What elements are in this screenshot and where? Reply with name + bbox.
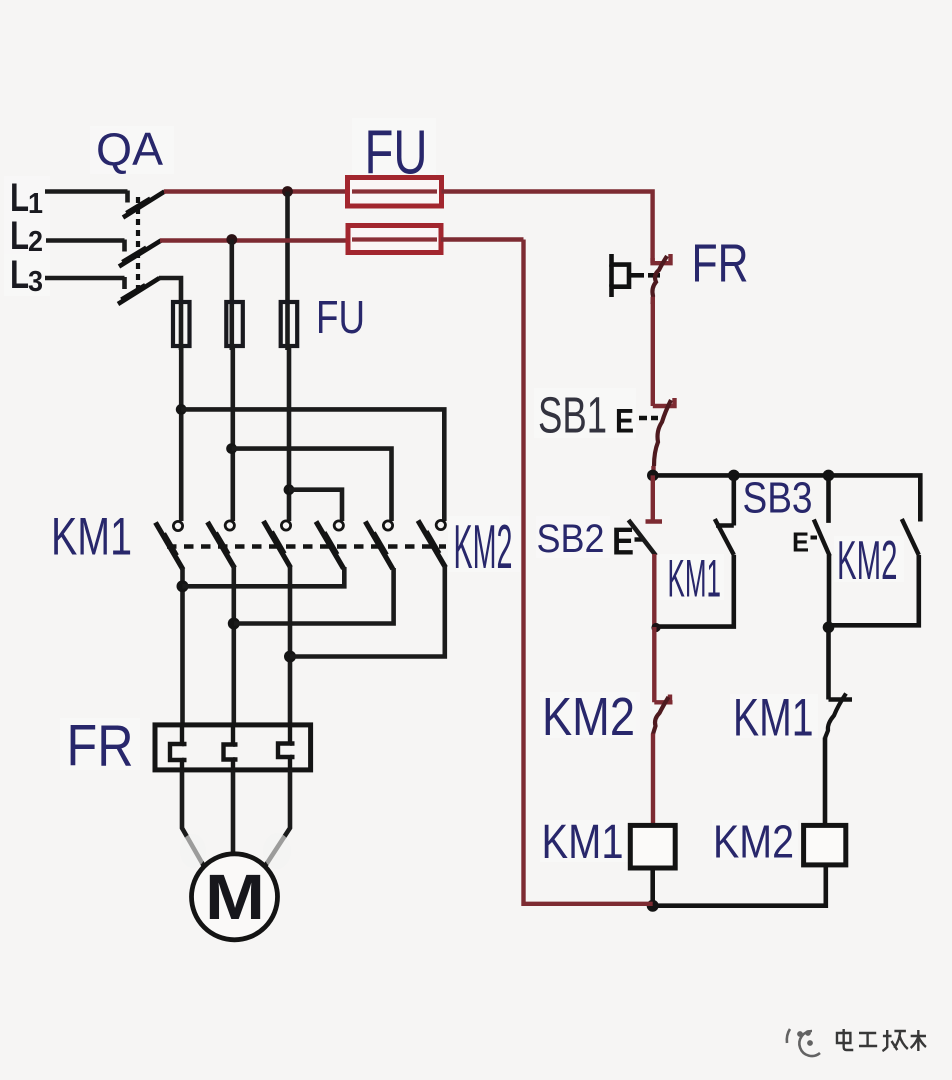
relay FR heater 2 [224,725,238,770]
motor M circle [192,854,278,940]
wire coil KM1 to bottom bus [650,868,655,906]
wire L1 red to fuse [164,189,348,193]
wire KM2 pole1 bottom link [183,567,345,586]
wire crossover 2 to KM2 pole2 [232,449,392,521]
contactor KM2 main contact 2 [365,521,393,569]
wire L3 black to fuse [159,278,181,350]
wire motor lead 3 [266,770,291,866]
contactor KM2 main contact 3 [418,520,446,567]
wire black KM1 interlock to coil KM2 [823,738,828,827]
svg-text:M: M [205,861,265,933]
watermark text 电工技术 [837,1029,926,1051]
svg-text:KM2: KM2 [713,816,794,868]
node L3 [10,253,43,298]
node KM1 pole2 / KM2 pole2 [228,618,240,630]
svg-text:KM1: KM1 [668,550,722,609]
svg-text:E: E [612,521,634,564]
wire KM1 pole3 down [288,566,293,726]
wire KM1 pole1 down [180,568,185,726]
node crossover 1 [176,404,187,415]
node junction L1/branch [282,186,293,197]
svg-text:FU: FU [365,119,428,188]
wire red KM2 interlock to coil KM1 [651,734,655,827]
wire L1 red fuse to control corner [442,192,653,264]
contactor KM1 main contact 3 [264,521,291,568]
node bottom bus [647,900,659,912]
contact KM1 interlock (NC) [825,694,852,739]
contact KM1 aux (NO) [657,475,734,626]
svg-text:KM2: KM2 [454,513,513,582]
wire branch L2 down to fuse [230,240,235,351]
svg-text:QA: QA [96,123,163,175]
svg-text:FR: FR [692,234,749,294]
button SB2 linkage dash [635,537,644,541]
button SB3 contact (NO) [814,475,830,628]
relay FR box [155,725,311,770]
svg-text:E: E [792,527,809,558]
node KM1 pole3 / KM2 pole3 [284,651,296,663]
svg-text:KM1: KM1 [542,816,624,869]
wire phase3 below fuse [287,344,292,521]
wire bottom bus black [653,865,826,906]
watermark logo [787,1029,820,1056]
svg-text:SB3: SB3 [743,474,813,523]
node crossover 2 [226,443,237,454]
svg-text:L: L [10,253,29,297]
svg-text:KM2: KM2 [837,529,898,591]
relay FR heater 1 [170,725,187,770]
wire L2 red to fuse [160,238,348,242]
contact KM2 aux (NO) [829,519,919,625]
svg-text:FR: FR [67,714,134,779]
node L1 [10,176,43,220]
svg-text:L: L [10,214,29,258]
svg-text:KM2: KM2 [542,687,635,747]
contactor KM2 main contact 1 [316,521,344,569]
coil KM2 [804,825,846,865]
svg-text:KM1: KM1 [733,689,814,748]
wire control bus [653,475,921,521]
svg-text:E: E [615,403,634,441]
svg-text:SB2: SB2 [537,517,605,561]
wire control red SB2 to junction [652,554,656,629]
wire control red SB1 to bus [651,466,655,476]
node bus right [823,470,835,482]
contactor KM1 main contact 2 [208,521,235,568]
wire crossover 1 to KM2 pole3 [181,409,444,521]
wire branch L1 down to fuse [285,192,290,351]
node KM1 pole1 / KM2 pole1 [177,580,189,592]
button SB1 contact (NC) [653,398,675,466]
button SB1 linkage dashes [639,416,658,420]
wire phase2 below fuse [231,344,236,521]
wire crossover 3 to KM2 pole1 [289,490,342,521]
fuse FU3b [226,302,243,346]
wire L2 lead-in [46,240,125,252]
switch QA pole 3 blade [118,278,160,304]
fuse FU3c [281,302,298,346]
node KM1 aux / red wire [651,623,660,632]
fuse FU2 [348,226,441,253]
button SB2 contact (NO) [629,475,663,555]
switch QA linkage dashed [136,197,140,294]
wire L1 lead-in [45,191,128,203]
svg-text:FU: FU [316,291,365,343]
wire black junction to KM1 interlock [826,627,831,700]
wire control return red [524,240,653,904]
node bus mid [728,470,740,482]
relay FR heater 3 [278,725,295,770]
contactor KM1 main contact 1 [156,521,184,569]
switch QA pole 2 blade [119,241,161,267]
fuse FU3a [173,302,190,346]
svg-text:SB1: SB1 [538,387,607,444]
relay FR contact (NC) on wire [652,254,670,304]
svg-text:KM1: KM1 [51,508,132,567]
contact KM2 interlock (NC) [653,695,673,735]
svg-text:2: 2 [28,226,43,258]
wire KM1 pole2 down [232,565,237,726]
node L2 [10,214,43,258]
switch QA pole 1 blade [123,192,165,218]
node crossover 3 [284,484,295,495]
fuse FU1 [348,178,442,207]
wire KM2 pole2 bottom link [234,568,394,624]
coil KM1 [630,825,675,868]
button SB3 linkage dash [811,536,818,540]
wire L3 lead-in [45,277,125,289]
node SB3/KM2aux junction [823,622,835,634]
wire motor lead 1 [182,770,204,866]
wire phase1 below fuse [179,344,184,521]
wire red junction to KM2 interlock [652,627,656,702]
svg-text:1: 1 [28,188,43,220]
contactor linkage dashed [167,544,446,548]
wire L2 red fuse to return corner [441,237,524,241]
wire motor lead 2 [231,770,236,855]
eraser smudges on motor leads [180,833,291,869]
relay FR contact actuator bracket [612,254,661,297]
node bus left [647,470,659,482]
wire control red FR to SB1 [651,297,655,406]
svg-text:3: 3 [28,266,43,298]
wire KM2 pole3 bottom link [290,566,445,657]
node junction L2/branch [226,234,237,245]
